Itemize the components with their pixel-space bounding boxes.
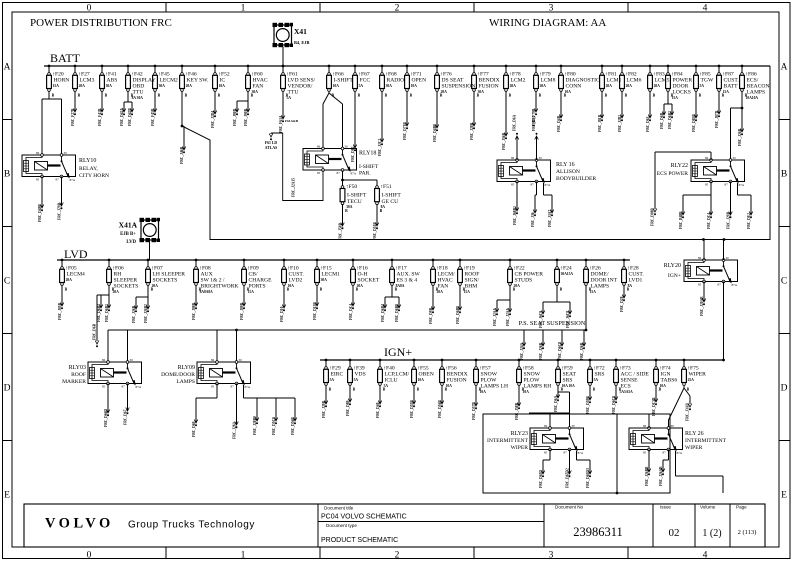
svg-text:FRC_D66D: FRC_D66D: [104, 409, 108, 427]
svg-text:5A: 5A: [594, 378, 599, 382]
svg-text:2 (113): 2 (113): [738, 529, 757, 536]
svg-text:FRC_D65D3: FRC_D65D3: [586, 468, 590, 488]
svg-text:FRC_J2A15: FRC_J2A15: [292, 178, 296, 197]
svg-text:F61A&B: F61A&B: [285, 119, 299, 123]
svg-text:FRC_F27B: FRC_F27B: [71, 108, 75, 126]
svg-text:RLY22: RLY22: [671, 163, 688, 169]
svg-text:SUSPENSION: SUSPENSION: [442, 84, 476, 90]
svg-text:10A: 10A: [418, 378, 425, 382]
svg-text:86: 86: [705, 156, 709, 160]
svg-text:ALLISON: ALLISON: [556, 169, 580, 175]
svg-text:10A: 10A: [411, 84, 418, 88]
svg-text:20A: 20A: [79, 84, 86, 88]
svg-text:FRC_J26AB: FRC_J26AB: [659, 466, 663, 486]
svg-text:SOCKETS: SOCKETS: [114, 284, 139, 290]
svg-text:DOME/DOOR: DOME/DOOR: [161, 372, 195, 378]
svg-text:LECM1: LECM1: [322, 272, 341, 278]
svg-text:87: 87: [231, 385, 235, 389]
svg-text:B: B: [345, 209, 348, 213]
svg-text:RLY18: RLY18: [359, 151, 376, 157]
svg-text:FRC_B48B: FRC_B48B: [679, 211, 683, 229]
svg-text:FRC_D42B: FRC_D42B: [128, 108, 132, 126]
svg-text:FRC_J79B: FRC_J79B: [57, 202, 61, 220]
svg-text:FRC_D6B: FRC_D6B: [660, 112, 664, 129]
svg-text:87: 87: [718, 283, 722, 287]
svg-text:FRC_J50B: FRC_J50B: [338, 222, 342, 240]
svg-text:87A: 87A: [545, 183, 551, 187]
svg-text:87A: 87A: [732, 283, 738, 287]
svg-text:FRC_D42A: FRC_D42A: [120, 108, 124, 126]
svg-text:FRC_J28B0: FRC_J28B0: [253, 416, 257, 435]
svg-text:FRC_D6B: FRC_D6B: [93, 323, 97, 340]
svg-text:85: 85: [317, 171, 321, 175]
svg-text:30A: 30A: [159, 84, 166, 88]
svg-text:87: 87: [531, 183, 535, 187]
svg-text:B: B: [151, 288, 154, 292]
svg-text:LAMPS LH: LAMPS LH: [481, 384, 509, 390]
svg-text:FRC_D57B: FRC_D57B: [472, 402, 476, 420]
svg-text:I-SHIFT: I-SHIFT: [382, 193, 402, 199]
svg-text:B: B: [445, 388, 448, 392]
svg-text:4: 4: [703, 551, 708, 561]
svg-text:B: B: [247, 288, 250, 292]
svg-text:BHM: BHM: [465, 284, 478, 290]
svg-text:ABS: ABS: [107, 78, 118, 84]
svg-text:FRC_D59B: FRC_D59B: [586, 396, 590, 414]
svg-text:A: A: [781, 63, 788, 73]
svg-text:B: B: [52, 94, 55, 98]
svg-text:B: B: [4, 170, 10, 180]
svg-text:85: 85: [36, 178, 40, 182]
svg-text:FRC_D69: FRC_D69: [192, 421, 196, 437]
svg-text:86: 86: [511, 156, 515, 160]
svg-text:FRC_D6B2: FRC_D6B2: [668, 111, 672, 129]
svg-text:FRC_DC5B: FRC_DC5B: [652, 397, 656, 416]
svg-text:BODYBUILDER: BODYBUILDER: [556, 176, 596, 182]
svg-text:5A: 5A: [330, 378, 335, 382]
svg-text:B: B: [417, 388, 420, 392]
svg-text:85: 85: [211, 385, 215, 389]
svg-text:B: B: [479, 388, 482, 392]
svg-text:30: 30: [64, 151, 68, 155]
svg-text:WIPER: WIPER: [689, 372, 707, 378]
svg-text:B: B: [593, 388, 596, 392]
svg-text:RLY10: RLY10: [79, 158, 96, 164]
svg-text:FRC_J26BB: FRC_J26BB: [645, 466, 649, 486]
svg-text:B: B: [653, 94, 656, 98]
svg-text:86: 86: [643, 424, 647, 428]
svg-text:B: B: [745, 94, 748, 98]
svg-text:Volume: Volume: [700, 505, 716, 510]
svg-text:FRC_D4B8: FRC_D4B8: [433, 124, 437, 142]
svg-text:X41: X41: [294, 27, 307, 36]
svg-text:TGW: TGW: [701, 78, 714, 84]
svg-text:FRC_J08B: FRC_J08B: [192, 302, 196, 320]
svg-text:X41A: X41A: [119, 221, 138, 230]
svg-text:86: 86: [36, 151, 40, 155]
svg-text:ATLAS: ATLAS: [265, 146, 277, 150]
svg-text:FRC_J2D4: FRC_J2D4: [211, 111, 215, 128]
svg-text:E: E: [4, 491, 10, 501]
svg-text:RLY09: RLY09: [178, 365, 195, 371]
svg-text:B: B: [395, 288, 398, 292]
svg-text:FCC: FCC: [360, 78, 371, 84]
svg-text:87A: 87A: [245, 385, 251, 389]
svg-text:30: 30: [345, 145, 349, 149]
svg-text:FRC_J2AA: FRC_J2AA: [506, 308, 510, 326]
svg-text:FRC_J2C2: FRC_J2C2: [378, 139, 382, 156]
svg-text:B: B: [286, 94, 289, 98]
svg-text:B: B: [287, 288, 290, 292]
svg-text:FRC_D6B8: FRC_D6B8: [395, 304, 399, 322]
svg-text:20A: 20A: [66, 278, 73, 282]
svg-text:C: C: [781, 277, 787, 287]
svg-text:ECS: ECS: [621, 384, 631, 390]
svg-text:Document No: Document No: [555, 505, 584, 510]
svg-text:85: 85: [102, 385, 106, 389]
svg-text:2: 2: [395, 4, 400, 14]
svg-text:FRC_D63: FRC_D63: [646, 116, 650, 132]
svg-text:SOCKET: SOCKET: [358, 278, 380, 284]
svg-text:FRC_J2B2: FRC_J2B2: [618, 115, 622, 132]
svg-text:30A: 30A: [106, 84, 113, 88]
svg-text:FRC_J68B2: FRC_J68B2: [513, 206, 517, 225]
svg-text:LAMPS: LAMPS: [747, 90, 766, 96]
svg-text:4: 4: [703, 4, 708, 14]
svg-text:B: B: [78, 94, 81, 98]
svg-text:SRS: SRS: [563, 378, 573, 384]
svg-text:B: B: [436, 288, 439, 292]
svg-text:20A: 20A: [510, 84, 517, 88]
svg-text:RLY23: RLY23: [511, 431, 528, 437]
svg-text:B: B: [513, 288, 516, 292]
svg-text:I-SHIFT: I-SHIFT: [359, 164, 379, 170]
svg-text:FRC_D4B: FRC_D4B: [557, 115, 561, 132]
svg-text:SRS: SRS: [595, 372, 605, 378]
svg-text:FRC_J26B: FRC_J26B: [738, 128, 742, 146]
svg-text:FAN: FAN: [438, 284, 449, 290]
svg-text:WIPER: WIPER: [685, 445, 703, 451]
svg-text:WIRING DIAGRAM: AA: WIRING DIAGRAM: AA: [489, 17, 606, 29]
svg-text:FRC_D49B: FRC_D49B: [38, 204, 42, 222]
svg-text:Issue: Issue: [660, 505, 671, 510]
svg-text:FRC_D28: FRC_D28: [620, 296, 624, 312]
svg-text:87: 87: [564, 451, 568, 455]
svg-text:B: B: [356, 288, 359, 292]
svg-text:FRC_D9B: FRC_D9B: [429, 307, 433, 324]
svg-text:LCM3: LCM3: [80, 78, 95, 84]
svg-text:20A: 20A: [186, 84, 193, 88]
svg-text:TTU: TTU: [133, 90, 144, 96]
svg-text:8A8A8A: 8A8A8A: [200, 290, 214, 294]
svg-text:F61 LD: F61 LD: [265, 141, 278, 145]
svg-text:ROOF: ROOF: [71, 372, 86, 378]
svg-text:FRC_J09B: FRC_J09B: [240, 302, 244, 320]
svg-text:87: 87: [56, 178, 60, 182]
svg-text:FRC_D51B: FRC_D51B: [373, 222, 377, 240]
svg-text:FRC_D71B: FRC_D71B: [403, 122, 407, 140]
svg-text:B: B: [659, 388, 662, 392]
svg-text:B: B: [564, 94, 567, 98]
svg-text:B: B: [539, 94, 542, 98]
svg-text:B: B: [218, 94, 221, 98]
svg-text:87: 87: [337, 171, 341, 175]
svg-text:EIRC: EIRC: [331, 372, 344, 378]
svg-text:HORN: HORN: [54, 78, 70, 84]
svg-text:FRC_D65D: FRC_D65D: [539, 470, 543, 488]
svg-text:P.S. SEAT SUSPENSION: P.S. SEAT SUSPENSION: [519, 320, 586, 327]
svg-text:FRC_J58B: FRC_J58B: [515, 402, 519, 420]
svg-text:FRC_J26B: FRC_J26B: [580, 342, 584, 360]
svg-text:87A: 87A: [578, 451, 584, 455]
svg-text:1: 1: [241, 4, 246, 14]
svg-text:PRODUCT SCHEMATIC: PRODUCT SCHEMATIC: [321, 537, 398, 544]
svg-text:LECM2: LECM2: [160, 78, 179, 84]
svg-text:B: B: [440, 94, 443, 98]
svg-text:FRC_J2AA: FRC_J2AA: [493, 308, 497, 326]
svg-text:FRC_D65D2: FRC_D65D2: [565, 468, 569, 488]
svg-text:87A: 87A: [136, 385, 142, 389]
svg-text:0: 0: [87, 4, 92, 14]
svg-text:B: B: [410, 94, 413, 98]
svg-text:LVD: LVD: [126, 240, 136, 245]
svg-text:B: B: [383, 388, 386, 392]
svg-text:23986311: 23986311: [573, 525, 623, 539]
svg-text:30: 30: [239, 358, 243, 362]
svg-text:B: B: [158, 94, 161, 98]
svg-text:RADIO: RADIO: [387, 78, 405, 84]
svg-text:FRC_J29B: FRC_J29B: [322, 400, 326, 418]
svg-text:30A15A: 30A15A: [561, 272, 574, 276]
svg-text:FRC_D6B4: FRC_D6B4: [381, 304, 385, 322]
svg-text:10A 10A: 10A 10A: [562, 384, 575, 388]
svg-text:2: 2: [395, 551, 400, 561]
svg-text:8A 30A: 8A 30A: [132, 96, 144, 100]
svg-text:B: B: [131, 94, 134, 98]
svg-text:BATT: BATT: [50, 51, 81, 65]
svg-text:87: 87: [663, 451, 667, 455]
svg-text:B: B: [722, 94, 725, 98]
svg-text:FRC_J05B: FRC_J05B: [58, 302, 62, 320]
svg-text:B: B: [687, 388, 690, 392]
svg-text:KEY SW.: KEY SW.: [187, 78, 210, 84]
svg-text:ECS POWER: ECS POWER: [657, 171, 689, 177]
svg-text:FUSION: FUSION: [447, 378, 467, 384]
svg-text:LCM5: LCM5: [655, 78, 670, 84]
svg-text:FRC_D5C0: FRC_D5C0: [272, 417, 276, 435]
svg-text:5A5A5A: 5A5A5A: [620, 390, 634, 394]
svg-text:1: 1: [241, 551, 246, 561]
svg-text:FRC_DE2: FRC_DE2: [747, 213, 751, 229]
svg-text:OBEN: OBEN: [419, 372, 434, 378]
svg-text:85: 85: [544, 451, 548, 455]
svg-text:FRC_F61A: FRC_F61A: [279, 115, 283, 133]
svg-text:B: B: [522, 388, 525, 392]
svg-text:86: 86: [544, 424, 548, 428]
svg-text:02: 02: [669, 527, 680, 539]
svg-text:B: B: [385, 94, 388, 98]
svg-text:LVD2: LVD2: [289, 278, 303, 284]
svg-text:BATT: BATT: [724, 84, 739, 90]
svg-text:INTERMITTENT: INTERMITTENT: [685, 438, 727, 444]
svg-text:B: B: [105, 94, 108, 98]
svg-text:87: 87: [725, 183, 729, 187]
svg-text:30: 30: [733, 156, 737, 160]
svg-text:FRC_D55B: FRC_D55B: [410, 400, 414, 418]
svg-text:A: A: [4, 63, 11, 73]
svg-text:E: E: [781, 491, 787, 501]
svg-text:B: B: [627, 288, 630, 292]
svg-text:5A: 5A: [700, 84, 705, 88]
svg-text:LAMPS RH: LAMPS RH: [524, 384, 552, 390]
svg-text:Document type: Document type: [326, 523, 357, 528]
svg-text:FRC_D40: FRC_D40: [376, 402, 380, 418]
svg-text:B: B: [699, 94, 702, 98]
svg-text:FRC_D89: FRC_D89: [346, 400, 350, 416]
svg-text:BRIGHTWORK: BRIGHTWORK: [201, 284, 239, 290]
svg-text:B: B: [199, 288, 202, 292]
svg-text:FRC_J81B: FRC_J81B: [598, 114, 602, 132]
svg-text:LOCKS: LOCKS: [673, 90, 691, 96]
svg-text:87A: 87A: [351, 172, 357, 176]
svg-text:Document title: Document title: [324, 506, 354, 511]
svg-text:30A: 30A: [321, 278, 328, 282]
svg-text:30: 30: [572, 424, 576, 428]
svg-text:FRC_J90B: FRC_J90B: [244, 108, 248, 126]
svg-text:B: B: [560, 288, 563, 292]
svg-text:FRC_DC4: FRC_DC4: [349, 304, 353, 320]
svg-text:FRC_D6B2: FRC_D6B2: [105, 304, 109, 322]
svg-text:FRC_J46B: FRC_J46B: [180, 146, 184, 164]
svg-text:B4, EJB: B4, EJB: [294, 40, 309, 45]
svg-text:VDS: VDS: [355, 372, 366, 378]
svg-text:B: B: [605, 94, 608, 98]
svg-text:B: B: [112, 288, 115, 292]
svg-text:ICLU: ICLU: [385, 378, 398, 384]
svg-text:FRC_D6B8: FRC_D6B8: [456, 306, 460, 324]
svg-text:FRC_D87: FRC_D87: [532, 115, 536, 131]
svg-text:3: 3: [549, 551, 554, 561]
svg-text:0: 0: [87, 551, 92, 561]
svg-text:B: B: [589, 288, 592, 292]
svg-text:FRC_D10: FRC_D10: [280, 306, 284, 322]
svg-text:IC: IC: [220, 78, 226, 84]
svg-text:FRC_D6A: FRC_D6A: [554, 395, 558, 412]
svg-text:FRC_J3AB: FRC_J3AB: [686, 403, 690, 421]
svg-text:87A: 87A: [70, 178, 76, 182]
svg-text:FRC_J26B: FRC_J26B: [539, 342, 543, 360]
svg-text:FRC_F41B: FRC_F41B: [98, 108, 102, 126]
svg-text:FRC_F45B: FRC_F45B: [151, 108, 155, 126]
svg-text:87: 87: [122, 385, 126, 389]
svg-text:ES 3 & 4: ES 3 & 4: [397, 278, 418, 284]
svg-text:86: 86: [211, 358, 215, 362]
svg-text:25A: 25A: [688, 378, 695, 382]
svg-text:10A: 10A: [333, 84, 340, 88]
svg-text:20A: 20A: [654, 84, 661, 88]
svg-text:LAMPS: LAMPS: [176, 379, 195, 385]
svg-text:85: 85: [511, 183, 515, 187]
svg-text:5A: 5A: [354, 378, 359, 382]
svg-text:Group Trucks Technology: Group Trucks Technology: [128, 520, 255, 531]
svg-text:1 (2): 1 (2): [702, 528, 721, 539]
svg-text:FRC_D98B: FRC_D98B: [651, 208, 655, 226]
svg-text:LAMPS: LAMPS: [591, 284, 610, 290]
svg-text:FRC_D6C9: FRC_D6C9: [558, 342, 562, 360]
svg-text:B: B: [561, 388, 564, 392]
svg-text:FRC_J28B: FRC_J28B: [470, 122, 474, 140]
svg-text:TABS6: TABS6: [661, 378, 678, 384]
svg-text:B: B: [380, 209, 383, 213]
svg-text:OPEN: OPEN: [412, 78, 427, 84]
svg-text:20A: 20A: [606, 84, 613, 88]
svg-text:FRC_D67: FRC_D67: [123, 409, 127, 425]
svg-text:SOCKETS: SOCKETS: [153, 278, 178, 284]
svg-text:RELAY,: RELAY,: [79, 166, 98, 172]
svg-text:RLY 16: RLY 16: [556, 162, 575, 168]
svg-text:B: B: [477, 94, 480, 98]
svg-text:5A: 5A: [359, 84, 364, 88]
svg-text:LVD: LVD: [64, 247, 88, 261]
svg-text:30A: 30A: [386, 84, 393, 88]
svg-text:LECM4: LECM4: [67, 272, 86, 278]
svg-text:B: B: [463, 288, 466, 292]
svg-text:FRC_D56B: FRC_D56B: [438, 400, 442, 418]
svg-text:LCM2: LCM2: [511, 78, 526, 84]
svg-text:FRC_D6A: FRC_D6A: [513, 114, 517, 131]
svg-text:FAN: FAN: [253, 84, 264, 90]
svg-text:I-SHIFT: I-SHIFT: [347, 193, 367, 199]
svg-text:↑F51: ↑F51: [380, 184, 392, 190]
svg-text:FRC_D15B: FRC_D15B: [313, 302, 317, 320]
svg-text:FRC_J26B2: FRC_J26B2: [144, 304, 148, 323]
svg-text:STUDS: STUDS: [515, 278, 533, 284]
svg-text:RLY03: RLY03: [69, 365, 86, 371]
svg-text:10A: 10A: [219, 84, 226, 88]
svg-text:FRC_D85B: FRC_D85B: [692, 114, 696, 132]
svg-text:FRC_J36: FRC_J36: [531, 212, 535, 227]
svg-text:I-SHIFT: I-SHIFT: [334, 78, 354, 84]
svg-text:POWER DISTRIBUTION FRC: POWER DISTRIBUTION FRC: [30, 17, 172, 29]
svg-text:B: B: [320, 288, 323, 292]
svg-text:85: 85: [705, 183, 709, 187]
svg-text:PORTS: PORTS: [249, 284, 266, 290]
svg-text:B: B: [251, 94, 254, 98]
svg-text:30: 30: [671, 424, 675, 428]
svg-text:FRC_J26B: FRC_J26B: [132, 305, 136, 323]
svg-text:FRC_J20AB: FRC_J20AB: [700, 296, 704, 316]
svg-text:86: 86: [698, 256, 702, 260]
svg-text:FRC_J56B: FRC_J56B: [502, 132, 506, 150]
svg-text:PC04 VOLVO SCHEMATIC: PC04 VOLVO SCHEMATIC: [321, 514, 407, 521]
svg-text:C: C: [4, 277, 10, 287]
svg-text:FRC_J29B: FRC_J29B: [726, 211, 730, 229]
svg-text:Page: Page: [736, 505, 747, 510]
svg-text:MARKER: MARKER: [62, 379, 86, 385]
svg-text:FRC_D6C8: FRC_D6C8: [612, 396, 616, 414]
svg-text:LCM6: LCM6: [627, 78, 642, 84]
svg-text:FRC_J90D: FRC_J90D: [233, 108, 237, 126]
svg-text:IGN+: IGN+: [668, 273, 681, 279]
svg-text:B: B: [509, 94, 512, 98]
svg-text:FRC_DC4: FRC_DC4: [707, 213, 711, 229]
svg-text:86: 86: [317, 145, 321, 149]
svg-text:86: 86: [102, 358, 106, 362]
svg-text:WIPER: WIPER: [511, 445, 529, 451]
svg-text:INTERMITTENT: INTERMITTENT: [487, 438, 529, 444]
svg-text:B: B: [781, 170, 787, 180]
svg-text:30: 30: [130, 358, 134, 362]
